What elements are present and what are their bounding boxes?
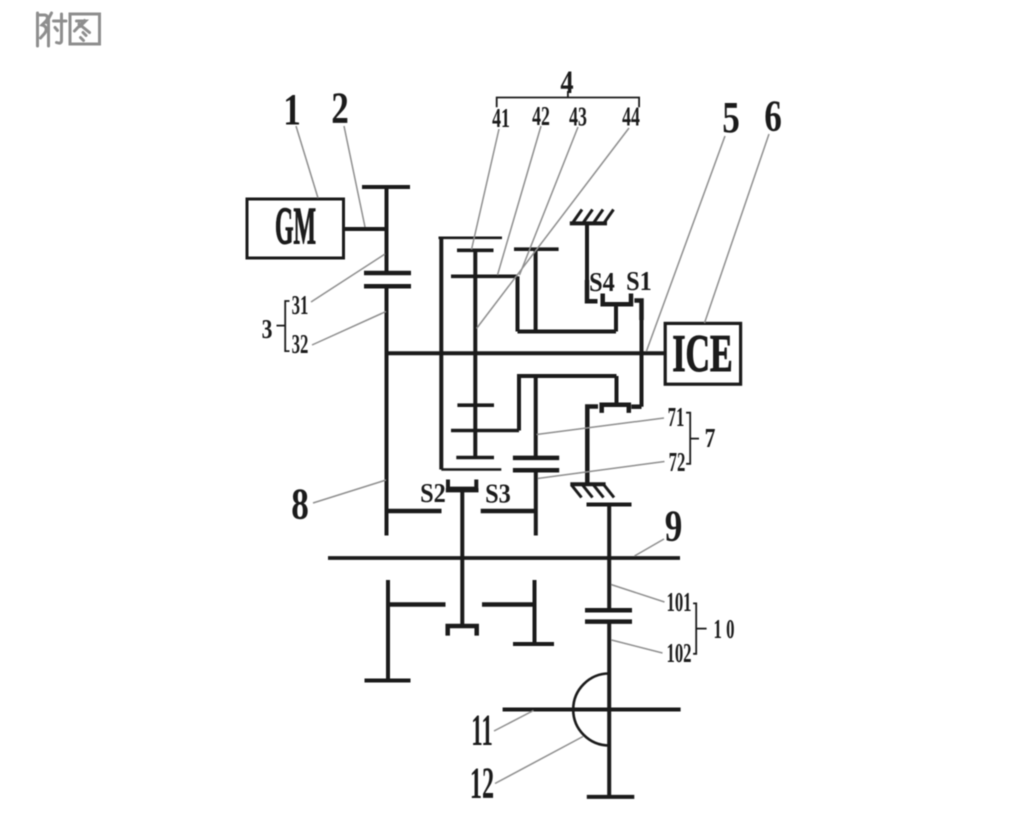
svg-text:32: 32	[292, 329, 309, 359]
leader to label 44	[477, 128, 630, 329]
wire: top T-bar of motor shaft	[362, 185, 410, 189]
svg-text:S3: S3	[485, 478, 511, 508]
wire: carrier bottom tick	[456, 456, 494, 460]
clutch S3 right plate	[481, 509, 536, 514]
svg-text:6: 6	[764, 91, 782, 141]
svg-text:43: 43	[569, 102, 587, 132]
gear 43: sun T-bar	[514, 247, 559, 251]
svg-text:GM: GM	[275, 196, 316, 255]
leader to label 2	[344, 126, 365, 227]
wire: hanger to mesh coupling x535.7	[534, 376, 538, 457]
bracket for label 7	[686, 413, 690, 464]
svg-text:101: 101	[666, 587, 691, 617]
wire: gearbox bottom bar	[441, 468, 501, 471]
title 附图 (gray CJK, drawn as strokes)	[38, 13, 100, 46]
clutch S1 right plate hook	[634, 301, 641, 321]
svg-text:S2: S2	[420, 478, 446, 508]
leader to label 1	[296, 126, 318, 198]
wire: GM output link	[343, 227, 388, 231]
clutch S4 left plate hook	[587, 280, 598, 301]
leader to label 12	[495, 737, 583, 784]
leader to label 32	[312, 312, 386, 346]
svg-text:ICE: ICE	[672, 323, 732, 383]
gear tick on carrier (lower)	[457, 403, 494, 407]
gear: lower-left vertical	[386, 580, 390, 681]
shaft: planet carrier vertical	[473, 250, 477, 458]
leader to label 6	[705, 134, 770, 323]
gear: lower-right plate tick	[482, 602, 535, 607]
svg-text:4: 4	[560, 64, 573, 100]
svg-text:41: 41	[492, 103, 510, 133]
shaft: motor shaft lower segment	[385, 288, 389, 536]
wire: lower-left bottom T-bar	[365, 679, 411, 683]
coupling: right mesh upper plate	[513, 456, 559, 461]
bracket for label 10	[693, 603, 696, 653]
clutch 72 left plate with hook	[587, 407, 598, 485]
leader to label 31	[311, 254, 385, 302]
component 10: coupling 102 plate	[585, 619, 632, 624]
bracket for label 4	[497, 98, 639, 108]
leader to label 101	[611, 585, 665, 603]
final drive gear 12 (half circle)	[573, 674, 609, 746]
bracket for label 3	[285, 301, 289, 351]
gear tick row y430	[451, 429, 519, 433]
gear: lower-left plate tick	[388, 602, 446, 607]
clutch S2 left plate	[387, 509, 442, 514]
ground (top)	[570, 221, 607, 225]
svg-text:12: 12	[470, 758, 494, 808]
svg-text:7: 7	[705, 424, 716, 454]
ground (bottom)	[570, 482, 605, 486]
leader to label 72	[538, 462, 665, 479]
svg-text:102: 102	[666, 638, 691, 668]
leader lines (gray)	[296, 126, 769, 784]
leader to label 5	[647, 136, 726, 351]
wire: gearbox left vertical (ring 44)	[439, 237, 443, 470]
wire: main input axis to ICE	[387, 351, 666, 355]
wire: gearbox top bar	[439, 237, 503, 240]
wire: vertical hanger x519	[517, 374, 521, 431]
clutch S4/S1 shared U member	[603, 294, 631, 305]
shaft 10 vertical upper	[607, 505, 611, 611]
svg-text:72: 72	[669, 447, 686, 477]
coupling: right mesh lower plate	[513, 468, 559, 473]
clutch 71 bracket (inverted U)	[602, 405, 629, 413]
motor box GM (component 1)	[247, 199, 344, 258]
leader to label 11	[494, 711, 534, 732]
shaft 2: motor shaft vertical upper segment	[385, 185, 389, 271]
gear 42 tick	[451, 274, 518, 278]
svg-text:31: 31	[292, 290, 309, 320]
shaft: sun gear stem	[534, 249, 538, 331]
wire: lower-right end T-bar	[513, 642, 554, 646]
component 10: coupling 101 plate	[585, 608, 632, 613]
svg-text:42: 42	[532, 101, 550, 131]
synchronizer S2/S3 bracket	[448, 480, 476, 489]
leader to label 9	[635, 539, 665, 556]
leader to label 41	[472, 129, 500, 250]
wire: shaft 10 top T-bar	[587, 503, 632, 507]
leader to label 71	[537, 418, 665, 435]
shaft: brake S4 grounded shaft	[585, 223, 589, 301]
leader to label 8	[313, 480, 386, 503]
svg-text:3: 3	[262, 315, 273, 345]
svg-text:1 0: 1 0	[714, 614, 735, 644]
svg-text:71: 71	[668, 402, 685, 432]
wire: corner vertical to lower link	[516, 276, 520, 331]
shaft: S3 side vertical below mesh	[534, 470, 538, 535]
wire: ring link horizontal y376	[517, 374, 617, 378]
synchro lower T-hook	[448, 626, 477, 636]
shaft 9: output axis	[328, 556, 680, 560]
shaft 10 vertical lower	[607, 623, 611, 797]
wire: shaft 10 bottom T-bar	[587, 795, 635, 799]
leader to label 42	[498, 126, 542, 275]
shaft: S1 right vertical through axis	[640, 300, 644, 407]
shaft 11: final axis	[503, 708, 681, 712]
svg-text:11: 11	[471, 706, 493, 755]
engine box ICE (component 6)	[665, 323, 740, 384]
shaft: synchro stem through axis 9	[460, 489, 464, 626]
svg-text:5: 5	[722, 92, 740, 142]
wire: stem from ring link down to clutch 7	[615, 376, 619, 405]
clutch 7 right plate hook	[631, 404, 641, 409]
svg-text:8: 8	[291, 479, 309, 529]
wire: link to clutch stem at y331	[518, 330, 617, 334]
component 3: coupling 32 lower plate	[364, 284, 411, 289]
component 3: coupling 31 upper plate	[364, 271, 411, 276]
svg-text:1: 1	[283, 84, 301, 134]
svg-text:9: 9	[665, 501, 683, 551]
svg-text:2: 2	[331, 83, 349, 133]
wire: U stem to y331 link	[614, 305, 618, 332]
svg-text:44: 44	[622, 102, 640, 132]
leader to label 102	[612, 640, 663, 653]
svg-text:S4: S4	[589, 267, 615, 297]
gear 41 tick	[457, 249, 494, 253]
gear: lower-right vertical	[533, 580, 537, 644]
leader to label 43	[520, 127, 579, 275]
svg-text:S1: S1	[626, 266, 652, 296]
